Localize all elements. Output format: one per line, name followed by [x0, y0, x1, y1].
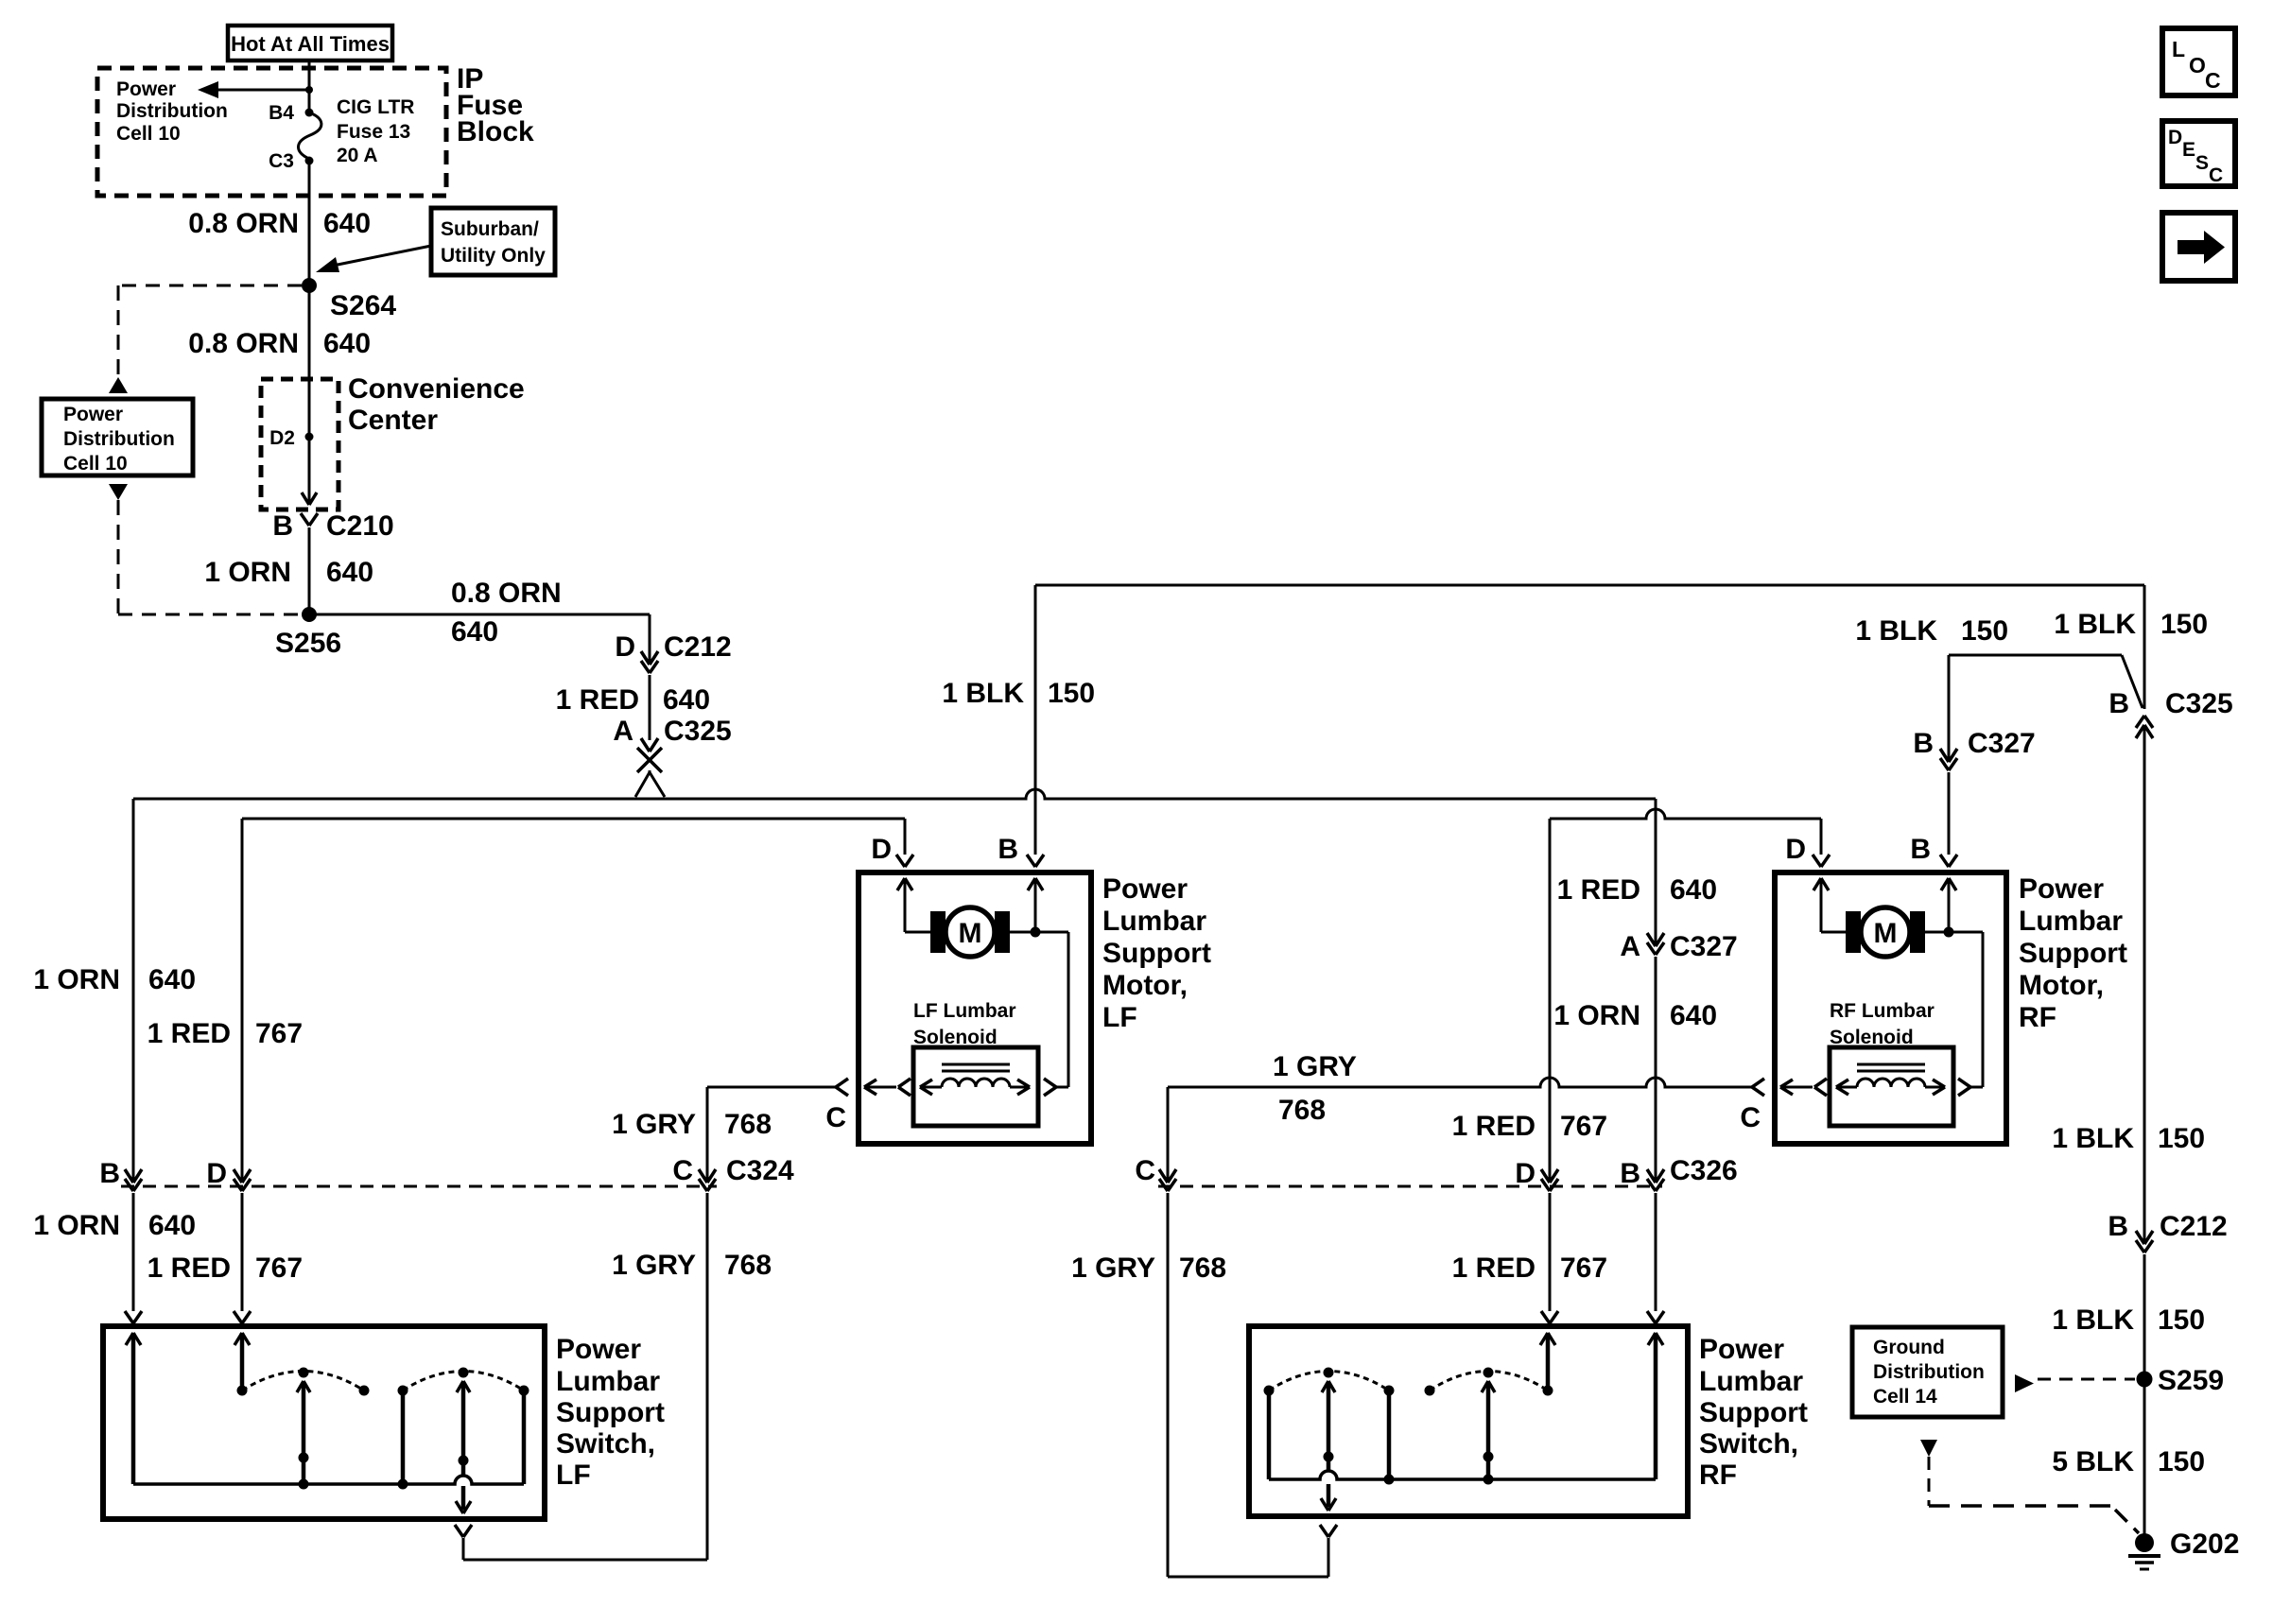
connector C324 pin B [99, 1158, 142, 1191]
svg-text:150: 150 [2158, 1446, 2205, 1477]
label 1 RED 767 (below C326-D) [1452, 1253, 1607, 1284]
svg-text:1 GRY: 1 GRY [612, 1109, 696, 1140]
svg-text:Suburban/: Suburban/ [441, 218, 539, 240]
arrow to Power Distribution (left) [198, 81, 309, 98]
svg-text:C212: C212 [2160, 1211, 2228, 1242]
wire 1 GRY 768, LF solenoid to C324-C [707, 1087, 836, 1181]
label 1 RED 767 (above C326-D) [1452, 1111, 1607, 1142]
label 1 GRY 768 (above C324-C) [612, 1109, 772, 1140]
svg-text:A: A [1620, 931, 1640, 962]
label 1 BLK 150 (rail above C212) [2052, 1123, 2205, 1154]
svg-text:Support: Support [1102, 938, 1211, 969]
svg-text:150: 150 [2158, 1304, 2205, 1336]
wire 1 ORN 640, C326-B to RF switch B [1655, 1193, 1657, 1311]
RF switch pin D chevron [1541, 1311, 1558, 1323]
svg-text:C327: C327 [1968, 728, 2036, 759]
dashed tie to G202 (vertical) [1928, 1457, 1931, 1506]
RF switch pin B chevron [1647, 1311, 1664, 1323]
label 1 BLK 150 (LF motor B) [942, 678, 1095, 709]
svg-text:L: L [2172, 37, 2185, 61]
RF switch arc1 left stem [1267, 1391, 1272, 1479]
svg-text:5 BLK: 5 BLK [2052, 1446, 2134, 1477]
wire split to feed branches [635, 770, 665, 797]
svg-text:Switch,: Switch, [1699, 1428, 1798, 1460]
svg-text:C327: C327 [1670, 931, 1738, 962]
svg-text:768: 768 [1278, 1095, 1326, 1126]
label Power Distribution Cell 10 (left box) [63, 404, 175, 475]
svg-text:S256: S256 [275, 628, 341, 659]
svg-text:150: 150 [2160, 609, 2208, 640]
svg-text:C: C [2205, 68, 2221, 93]
label 1 RED 767 (below C324-D) [147, 1253, 303, 1284]
pin B4 node [269, 102, 313, 124]
label 0.8 ORN 640 (horizontal run) [451, 578, 562, 648]
svg-text:Motor,: Motor, [2019, 970, 2104, 1001]
svg-text:D: D [871, 834, 892, 865]
up triangle to Power Distribution [109, 377, 128, 393]
LF solenoid left arrow (inside) [920, 1080, 942, 1095]
svg-text:Switch,: Switch, [556, 1428, 655, 1460]
ground G202 [2128, 1529, 2239, 1569]
svg-text:LF Lumbar: LF Lumbar [913, 1000, 1016, 1022]
svg-text:Distribution: Distribution [63, 428, 175, 450]
RF solenoid left arrow (inside) [1836, 1080, 1857, 1095]
svg-text:LF: LF [1102, 1002, 1137, 1033]
svg-text:640: 640 [451, 616, 498, 648]
LF solenoid inner chevron [864, 1079, 911, 1096]
label 1 RED 767 (above C324-D) [147, 1018, 303, 1049]
wire 1 ORN 640, C327-A to C326-B [1655, 957, 1657, 1181]
svg-text:1 BLK: 1 BLK [2054, 609, 2136, 640]
svg-text:768: 768 [724, 1250, 772, 1281]
wire down to C326-D [1549, 819, 1552, 1181]
RF motor pin D chevron [1785, 834, 1830, 867]
dashed tie to G202 (diagonal) [2115, 1510, 2139, 1533]
RF switch pin C chevron (below box) [1320, 1525, 1337, 1537]
svg-text:Lumbar: Lumbar [1699, 1366, 1803, 1397]
svg-text:RF: RF [1699, 1460, 1737, 1491]
pin C3 node [269, 150, 313, 172]
connector C325 pin B (upward) [2108, 688, 2232, 738]
svg-text:1 GRY: 1 GRY [1071, 1253, 1155, 1284]
svg-text:B: B [99, 1158, 120, 1189]
svg-text:Power: Power [556, 1334, 641, 1365]
svg-text:D: D [615, 631, 635, 663]
svg-text:Support: Support [2019, 938, 2127, 969]
wire inside Convenience Center [308, 379, 311, 503]
Suburban/Utility Only callout box [431, 208, 555, 275]
RF switch pin B stem [1648, 1333, 1663, 1479]
label Hot At All Times [231, 32, 390, 56]
connector C327 pin A [1620, 931, 1737, 962]
RF switch bottom rail [1269, 1471, 1656, 1479]
wire motor to solenoid (RF right side) [1924, 932, 1983, 1087]
label 1 BLK 150 (right rail top) [2054, 609, 2208, 640]
DESC icon box [2162, 121, 2235, 186]
LF Power Lumbar Support Switch box [103, 1326, 545, 1519]
svg-text:20 A: 20 A [337, 145, 378, 166]
svg-text:1 ORN: 1 ORN [33, 1210, 120, 1241]
LF switch pin B stem [126, 1333, 141, 1484]
node S256 [275, 607, 341, 659]
Ground Distribution Cell 14 box [1852, 1327, 2003, 1417]
wire 1 GRY 768, C324-C to LF switch C [463, 1193, 707, 1560]
svg-text:C: C [2209, 164, 2223, 186]
svg-text:Center: Center [348, 405, 438, 436]
svg-text:A: A [613, 716, 633, 747]
connector C324 pin D [206, 1158, 251, 1191]
svg-text:G202: G202 [2170, 1529, 2239, 1560]
down triangle from Power Distribution [109, 484, 128, 500]
svg-text:C212: C212 [664, 631, 732, 663]
svg-text:Distribution: Distribution [116, 100, 228, 122]
svg-text:D: D [2168, 127, 2182, 148]
label 1 BLK 150 (rail above S259) [2052, 1304, 2205, 1336]
wire 1 ORN 640, C324-B to LF switch B [132, 1193, 135, 1311]
svg-text:B: B [998, 834, 1018, 865]
connector C212 pin B [2108, 1211, 2227, 1253]
wire down to RF motor pin D [1820, 819, 1823, 855]
svg-text:1 RED: 1 RED [556, 684, 639, 716]
wire 1 ORN 640 down to C324-B [132, 799, 135, 1181]
svg-text:B4: B4 [269, 102, 294, 124]
svg-text:1 RED: 1 RED [147, 1018, 231, 1049]
label 0.8 ORN 640 (upper) [188, 208, 371, 239]
arrow into connector C210 [302, 492, 317, 505]
motor M1 (LF lumbar motor) [930, 907, 1010, 957]
junction node, fuse feed branch [305, 86, 313, 94]
svg-text:640: 640 [148, 1210, 196, 1241]
label 1 GRY 768 (below C326-C) [1071, 1253, 1226, 1284]
svg-text:767: 767 [255, 1018, 303, 1049]
svg-text:150: 150 [2158, 1123, 2205, 1154]
RF switch contact arc 1 [1264, 1368, 1395, 1396]
svg-text:640: 640 [323, 328, 371, 359]
svg-text:767: 767 [255, 1253, 303, 1284]
LOC icon box [2162, 28, 2235, 95]
connector C325 X splice symbol [637, 748, 662, 772]
LF motor pin C chevron [825, 1079, 848, 1133]
svg-text:0.8 ORN: 0.8 ORN [188, 208, 299, 239]
svg-text:640: 640 [1670, 874, 1717, 906]
LF switch contact arc 1 [242, 1368, 370, 1396]
LF motor pin D chevron [871, 834, 913, 867]
wire 1 BLK 150 top bus [1035, 584, 2144, 587]
svg-text:M: M [959, 918, 982, 949]
node S264 [302, 278, 396, 321]
svg-text:150: 150 [1048, 678, 1095, 709]
connector C210 chevron [272, 510, 393, 542]
label RF Lumbar Solenoid [1830, 1000, 1935, 1048]
wire 1 RED 767, C326-D to RF switch D [1549, 1193, 1552, 1311]
svg-text:150: 150 [1961, 615, 2008, 647]
dashed rail, S264 to up-arrow [117, 285, 120, 377]
svg-text:640: 640 [323, 208, 371, 239]
svg-text:Power: Power [2019, 873, 2104, 905]
dashed rail, down-arrow to S256 row [117, 500, 120, 614]
motor M2 (RF lumbar motor) [1846, 907, 1925, 957]
svg-text:C: C [672, 1155, 693, 1186]
svg-text:1 RED: 1 RED [1557, 874, 1640, 906]
LF switch pin C chevron (below box) [455, 1525, 472, 1537]
dashed tie to S259 [2038, 1378, 2135, 1381]
svg-text:D2: D2 [269, 427, 295, 449]
LF switch bottom rail [133, 1476, 524, 1484]
wire 1 RED 767 crossover bus (RF) [1550, 809, 1821, 819]
label 1 ORN 640 [1553, 1000, 1717, 1031]
svg-text:Distribution: Distribution [1873, 1361, 1985, 1383]
Power Distribution Cell 10 box (left) [42, 399, 193, 475]
svg-text:Power: Power [116, 78, 176, 100]
svg-text:1 BLK: 1 BLK [2052, 1304, 2134, 1336]
svg-text:S259: S259 [2158, 1365, 2224, 1396]
Hot At All Times box [228, 26, 392, 60]
RF lumbar solenoid L2 box [1830, 1047, 1953, 1126]
svg-text:640: 640 [663, 684, 710, 716]
svg-text:Power: Power [63, 404, 123, 425]
svg-text:C210: C210 [326, 510, 394, 542]
LF motor pin B arrow (inside) [1028, 878, 1043, 932]
connector C212 pin D [615, 631, 731, 673]
RF switch arc1 right stem [1384, 1391, 1395, 1485]
LF switch pin D stem [234, 1333, 250, 1396]
svg-text:Power: Power [1102, 873, 1188, 905]
dashed tie to G202 (horizontal) [1929, 1504, 2111, 1508]
wire 1 RED 767 crossover bus (LF) [242, 818, 905, 821]
svg-text:1 RED: 1 RED [1452, 1253, 1536, 1284]
wire 1 RED 640, C212 to C325 [649, 675, 651, 740]
RF solenoid core bars [1857, 1064, 1925, 1071]
svg-text:LF: LF [556, 1460, 591, 1491]
svg-text:768: 768 [1179, 1253, 1226, 1284]
svg-text:Ground: Ground [1873, 1337, 1945, 1358]
svg-text:640: 640 [148, 964, 196, 995]
dashed tie S264 to Power Distribution rail [118, 285, 302, 287]
svg-text:1 ORN: 1 ORN [33, 964, 120, 995]
connector C327 pin B [1913, 728, 2035, 770]
svg-text:C324: C324 [726, 1155, 794, 1186]
label 1 BLK 150 (RF motor B) [1855, 615, 2008, 647]
LF switch arc2 right stem [522, 1391, 527, 1484]
wire C327-B to RF motor B [1948, 772, 1951, 855]
wire down to C327-B [1948, 655, 1951, 760]
node S259 [2137, 1365, 2225, 1396]
RF motor pin C chevron [1740, 1079, 1764, 1133]
svg-text:O: O [2189, 53, 2206, 78]
LF lumbar solenoid L1 box [913, 1047, 1038, 1126]
svg-text:1 GRY: 1 GRY [1273, 1051, 1357, 1082]
RF solenoid right arrow [1925, 1080, 1945, 1095]
svg-text:Power: Power [1699, 1334, 1784, 1365]
connector C326 dashed line [1158, 1155, 1738, 1186]
label 5 BLK 150 [2052, 1446, 2205, 1477]
LF solenoid right chevron [1044, 1079, 1056, 1096]
Convenience Center dashed box [261, 379, 338, 510]
label Power Lumbar Support Switch RF [1699, 1334, 1808, 1491]
LF motor pin B chevron [998, 834, 1044, 867]
LF switch wiper 2 / pin C stem [456, 1381, 471, 1513]
svg-text:B: B [1913, 728, 1934, 759]
connector C324 dashed line [121, 1155, 794, 1186]
wire 0.8 ORN 640, fuse C3 to S264 [308, 163, 311, 285]
label 1 RED 640 [1557, 874, 1717, 906]
svg-text:768: 768 [724, 1109, 772, 1140]
wire 1 GRY 768, RF solenoid run [1168, 1078, 1752, 1181]
LF solenoid coil [942, 1079, 1010, 1087]
wire 1 GRY 768, C326-C to RF switch C [1168, 1193, 1328, 1577]
svg-text:RF Lumbar: RF Lumbar [1830, 1000, 1935, 1022]
RF Power Lumbar Support Switch box [1249, 1326, 1688, 1516]
label 1 GRY 768 (below C324-C) [612, 1250, 772, 1281]
label LF Lumbar Solenoid [913, 1000, 1016, 1048]
down triangle below Ground Distribution box [1920, 1440, 1937, 1457]
svg-text:0.8 ORN: 0.8 ORN [188, 328, 299, 359]
arrow icon box [2162, 213, 2235, 281]
svg-text:B: B [1910, 834, 1931, 865]
svg-text:Lumbar: Lumbar [1102, 906, 1206, 937]
RF motor pin D arrow (inside) [1813, 878, 1846, 932]
connector C326 pin C [1135, 1155, 1176, 1191]
svg-text:Cell 10: Cell 10 [63, 453, 128, 475]
RF motor B junction node [1944, 927, 1954, 938]
LF solenoid core bars [942, 1064, 1010, 1071]
LF motor pin D arrow (inside) [897, 878, 930, 932]
svg-text:B: B [2108, 688, 2129, 719]
RF motor pin B arrow (inside) [1941, 878, 1956, 932]
LF switch arc2 left stem [398, 1391, 408, 1490]
wire down to C324-D [241, 819, 244, 1181]
svg-text:S: S [2195, 152, 2209, 174]
label CIG LTR Fuse 13 20 A [337, 96, 414, 166]
label Convenience Center [348, 373, 525, 436]
svg-text:C3: C3 [269, 150, 294, 172]
connector C324 pin C [672, 1155, 716, 1191]
RF solenoid inner chevron [1780, 1079, 1827, 1096]
svg-text:Hot At All Times: Hot At All Times [231, 32, 390, 56]
svg-text:1 RED: 1 RED [147, 1253, 231, 1284]
svg-text:1 BLK: 1 BLK [2052, 1123, 2134, 1154]
svg-text:Block: Block [457, 116, 534, 147]
RF switch wiper 2 [1482, 1381, 1495, 1485]
svg-text:1 RED: 1 RED [1452, 1111, 1536, 1142]
LF switch wiper 1 [297, 1381, 310, 1490]
RF solenoid coil [1857, 1079, 1925, 1087]
svg-text:767: 767 [1560, 1253, 1607, 1284]
wire 0.8 ORN 640, S264 to Convenience Center [308, 285, 311, 379]
LF switch pin B chevron [125, 1311, 142, 1323]
RF Power Lumbar Support Motor box [1775, 872, 2006, 1144]
RF switch wiper 1 / pin C stem [1321, 1381, 1336, 1511]
connector C326 pin B [1620, 1158, 1664, 1191]
svg-text:C: C [1740, 1102, 1761, 1133]
svg-text:CIG LTR: CIG LTR [337, 96, 414, 118]
svg-text:C: C [825, 1102, 846, 1133]
label 1 ORN 640 (below C324-B) [33, 1210, 196, 1241]
label Ground Distribution Cell 14 [1873, 1337, 1985, 1408]
wire 0.8 ORN 640, S256 east to C212 [309, 614, 650, 663]
svg-text:C325: C325 [2165, 688, 2233, 719]
svg-text:S264: S264 [330, 290, 396, 321]
svg-text:1 ORN: 1 ORN [204, 557, 291, 588]
LF Power Lumbar Support Motor box [859, 872, 1091, 1144]
svg-text:Fuse 13: Fuse 13 [337, 121, 410, 143]
svg-text:Support: Support [1699, 1397, 1808, 1428]
svg-text:Convenience: Convenience [348, 373, 525, 405]
svg-text:E: E [2182, 139, 2195, 161]
RF switch pin D stem [1540, 1333, 1555, 1396]
svg-text:640: 640 [1670, 1000, 1717, 1031]
LF solenoid right arrow [1010, 1080, 1030, 1095]
wire 1 ORN 640 feed bus [133, 789, 1656, 799]
pin D2 node [269, 427, 313, 449]
label 0.8 ORN 640 (second) [188, 328, 371, 359]
svg-text:B: B [272, 510, 293, 542]
connector C326 pin D [1515, 1158, 1558, 1191]
svg-text:1 BLK: 1 BLK [1855, 615, 1937, 647]
svg-text:Lumbar: Lumbar [556, 1366, 660, 1397]
svg-text:Motor,: Motor, [1102, 970, 1188, 1001]
label 1 RED 640 [556, 684, 710, 716]
label 1 ORN 640 (above C324-B) [33, 964, 196, 995]
svg-text:1 BLK: 1 BLK [942, 678, 1024, 709]
wire 1 BLK 150, RF motor B branch [1949, 655, 2143, 708]
svg-text:Support: Support [556, 1397, 665, 1428]
svg-text:767: 767 [1560, 1111, 1607, 1142]
wire 1 RED 767, C324-D to LF switch D [241, 1193, 244, 1311]
right triangle to S259 [2015, 1374, 2034, 1392]
svg-text:D: D [206, 1158, 227, 1189]
svg-text:1 ORN: 1 ORN [1553, 1000, 1640, 1031]
svg-text:1 GRY: 1 GRY [612, 1250, 696, 1281]
svg-text:Cell 10: Cell 10 [116, 123, 181, 145]
svg-text:M: M [1874, 918, 1898, 949]
svg-text:B: B [1620, 1158, 1640, 1189]
wire motor to solenoid (LF right side) [1009, 932, 1068, 1087]
svg-text:Lumbar: Lumbar [2019, 906, 2123, 937]
svg-text:D: D [1515, 1158, 1536, 1189]
svg-text:C: C [1135, 1155, 1155, 1186]
wire, feed from Hot At All Times into fuse block [308, 59, 311, 111]
LF switch pin D chevron [234, 1311, 251, 1323]
label Power Lumbar Support Motor LF [1102, 873, 1211, 1033]
label IP Fuse Block [457, 63, 534, 147]
svg-text:D: D [1785, 834, 1806, 865]
fuse F13 element (CIG LTR Fuse 13 20 A) [299, 112, 321, 159]
IP Fuse Block dashed box [97, 68, 446, 196]
RF motor pin B chevron [1910, 834, 1957, 867]
dashed tie to S256 [118, 613, 302, 616]
wire 1 ORN 640, C210 to S256 [308, 527, 311, 614]
RF solenoid right chevron [1958, 1079, 1970, 1096]
right ground rail lower segment [2143, 1254, 2146, 1543]
wire down to LF motor pin D [904, 819, 907, 855]
label 1 ORN 640 (C210 to S256) [204, 557, 373, 588]
connector C325 pin A [613, 716, 731, 752]
LF motor B junction node [1031, 927, 1041, 938]
RF switch contact arc 2 [1425, 1368, 1549, 1396]
right ground rail upper segment [2143, 585, 2146, 709]
label Power Distribution Cell 10 (fuse block) [116, 78, 228, 145]
wire 1 RED 640, feed bus to C327-A [1655, 799, 1657, 944]
right ground rail mid segment [2143, 727, 2146, 1242]
svg-text:Cell 14: Cell 14 [1873, 1386, 1937, 1408]
LF switch contact arc 2 [398, 1368, 529, 1396]
svg-text:0.8 ORN: 0.8 ORN [451, 578, 562, 609]
wire 1 BLK 150, LF motor B riser [1034, 585, 1037, 855]
callout arrow to S264 [316, 246, 431, 272]
svg-text:Utility Only: Utility Only [441, 245, 546, 267]
svg-text:RF: RF [2019, 1002, 2056, 1033]
